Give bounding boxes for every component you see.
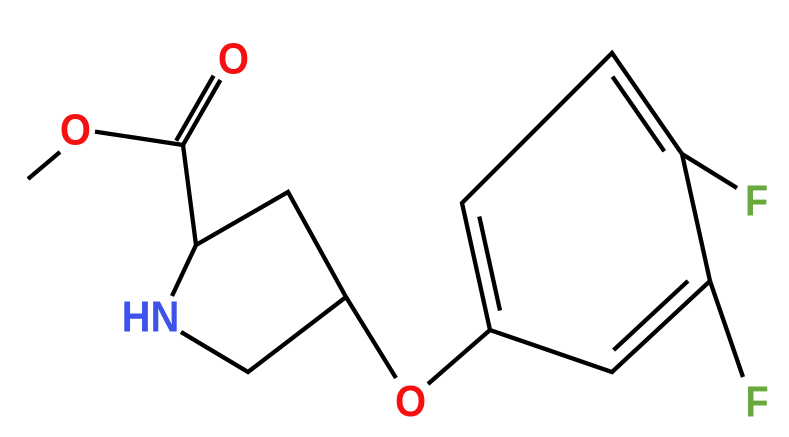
svg-text:O: O: [218, 34, 249, 83]
bond C4-O3 (ether): [346, 297, 396, 378]
bond C2'=C3' inner aromatic line: [614, 281, 688, 350]
bond C=O1 main (carbonyl): [183, 80, 220, 145]
bond O3-C1' (aryl ether): [428, 330, 490, 384]
bond O2-CH3 (methyl): [28, 152, 60, 179]
bond chain esterC-C2-N1 (into pyrrolidine): [172, 145, 196, 296]
svg-text:F: F: [745, 377, 768, 426]
bond C=O1 second line: [176, 76, 213, 141]
bond C4'=C5' inner aromatic line: [613, 77, 665, 152]
bond C6'=C1' inner aromatic line: [479, 217, 500, 311]
svg-text:HN: HN: [122, 292, 180, 341]
bond ester C-O2: [95, 132, 183, 145]
svg-text:O: O: [395, 376, 426, 425]
bond C4'-F1: [682, 154, 737, 188]
pyrrolidine ring path C2-C3-C4-C5: [181, 192, 346, 372]
svg-text:O: O: [60, 105, 91, 154]
bond C3'-F2: [710, 281, 743, 377]
benzene ring C1'-C2'-C3'-C4'-C5'-C6': [462, 53, 710, 372]
svg-text:F: F: [745, 176, 768, 225]
